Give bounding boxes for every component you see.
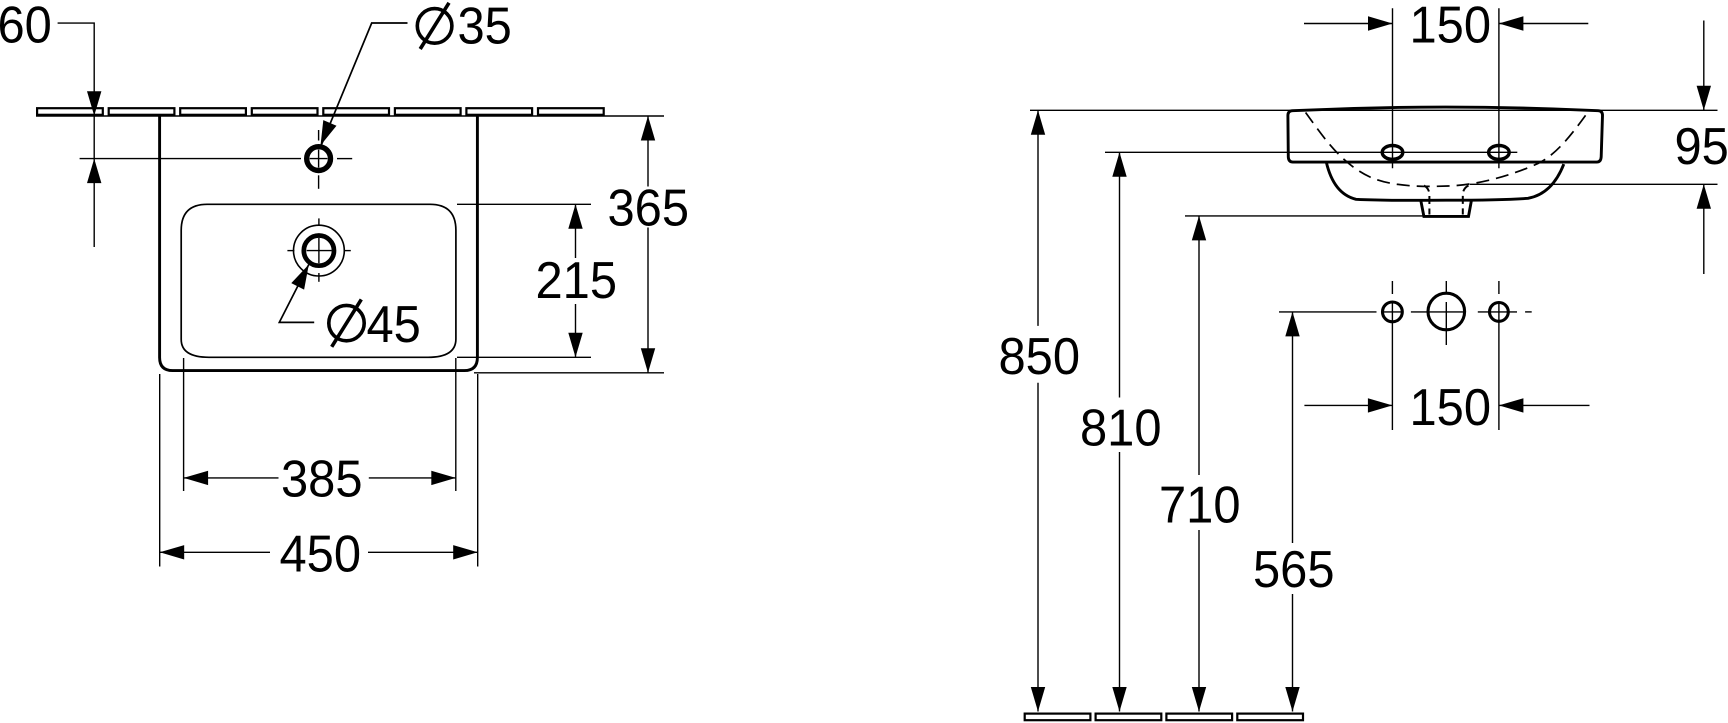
svg-text:385: 385 <box>281 449 363 508</box>
tap hole circle (D35) <box>307 147 331 171</box>
dimension 385 arrow left <box>184 471 209 485</box>
svg-text:450: 450 <box>280 524 362 583</box>
leader line D35 <box>322 23 408 145</box>
drain hole circle (D45 bold) <box>304 236 334 266</box>
svg-text:150: 150 <box>1410 378 1492 437</box>
basin outer outline (plan) <box>160 117 478 371</box>
dimension 215 extension bottom <box>457 356 591 358</box>
dimension 810 arrow down <box>1112 687 1126 712</box>
wall tiles (top view) <box>37 108 604 115</box>
dimension 710 extension <box>1185 215 1424 217</box>
dimension 385 arrow right <box>431 471 456 485</box>
dimension 710 line <box>1198 216 1200 475</box>
dimension 385 line <box>184 477 279 479</box>
dimension 850 arrow up <box>1031 110 1045 135</box>
wall line (front view) <box>1030 109 1718 111</box>
dimension 365 arrow up <box>641 116 655 141</box>
dimension 365 arrow down <box>641 348 655 373</box>
svg-text:35: 35 <box>458 0 512 55</box>
hole small left (front) <box>1383 302 1403 322</box>
floor tiles (front view) <box>1025 714 1303 721</box>
svg-text:215: 215 <box>536 251 618 310</box>
leader arrow D35 <box>321 120 337 145</box>
hole group centerline vertical right <box>1498 281 1500 294</box>
svg-text:45: 45 <box>367 295 421 354</box>
basin flange outline (front) <box>1288 107 1603 162</box>
dimension 450 line <box>160 551 270 553</box>
hole big middle (front) <box>1428 293 1465 330</box>
drain recess circle (thin) <box>294 225 345 276</box>
leader arrow D45 <box>291 265 309 290</box>
dimension 215 line <box>575 204 577 258</box>
tap hole centerline horizontal <box>80 158 301 160</box>
fixing hole centerline horizontal <box>1105 151 1517 153</box>
dimension 150 bottom arrow right <box>1368 398 1393 412</box>
fixing hole right (front) <box>1489 146 1510 160</box>
dimension 450 arrow left <box>160 545 185 559</box>
dimension 60 arrow down <box>87 91 101 116</box>
svg-text:365: 365 <box>608 178 690 237</box>
fixing hole centerline vertical right <box>1498 8 1500 168</box>
dimension 215 arrow down <box>568 333 582 358</box>
drain hidden pipe dashed right <box>1463 186 1469 215</box>
hole small right (front) <box>1490 303 1509 322</box>
drain centerline vertical <box>318 218 320 225</box>
dimension 385 extension right <box>455 358 457 491</box>
inner rim hidden edge (dashed) <box>1306 113 1587 187</box>
dimension 850 arrow down <box>1031 687 1045 712</box>
hole group centerline vertical middle <box>1445 281 1447 294</box>
dimension 365 line <box>647 116 649 187</box>
dimension 565 line <box>1292 312 1294 543</box>
inner bowl outline (plan) <box>181 204 456 357</box>
svg-text:565: 565 <box>1253 540 1335 599</box>
dimension 810 arrow up <box>1112 152 1126 177</box>
dimension 150 bottom line left <box>1304 404 1392 406</box>
tap hole centerline vertical <box>318 130 320 141</box>
dimension 150 bottom line right <box>1499 404 1590 406</box>
label D35 symbol <box>417 3 452 49</box>
dimension 150 top line left <box>1304 23 1393 25</box>
svg-text:710: 710 <box>1159 475 1241 534</box>
hole group centerline horizontal segments <box>1382 311 1404 313</box>
bowl underside outline (front) <box>1326 162 1564 200</box>
dimension 215 arrow up <box>568 204 582 229</box>
leader line D45 <box>279 265 314 323</box>
dimension 150 top arrow right <box>1368 16 1393 30</box>
dimension 385 extension left <box>183 358 185 491</box>
fixing hole centerline vertical left <box>1392 8 1394 168</box>
drain hidden pipe dashed left <box>1424 186 1429 215</box>
dimension 810 line <box>1119 152 1121 397</box>
dimension 150 top arrow left <box>1499 16 1524 30</box>
dimension 565 arrow up <box>1285 312 1299 337</box>
svg-text:95: 95 <box>1675 117 1728 176</box>
svg-text:60: 60 <box>0 0 52 54</box>
dimension 95 arrow down <box>1697 86 1711 111</box>
dimension 150 top line right <box>1499 23 1588 25</box>
label D45 symbol <box>329 299 364 346</box>
dimension 95 extension bottom <box>1470 183 1718 185</box>
svg-text:150: 150 <box>1410 0 1492 54</box>
dimension 450 arrow right <box>453 545 478 559</box>
dimension 95 line top <box>1703 21 1705 111</box>
dimension 365 extension line <box>474 372 664 374</box>
dimension 850 line <box>1037 110 1039 326</box>
dimension 565 extension <box>1279 311 1377 313</box>
dimension 450 extension left <box>159 374 161 567</box>
dimension 450 extension right <box>477 374 479 567</box>
wall line (top view) <box>36 115 664 117</box>
dimension 710 arrow up <box>1192 216 1206 241</box>
svg-text:810: 810 <box>1080 398 1162 457</box>
fixing hole left (front) <box>1382 146 1403 160</box>
dimension 60 arrow up <box>87 159 101 184</box>
dimension 60 leader <box>58 23 95 247</box>
drain centerline horizontal <box>287 250 294 252</box>
hole group centerline vertical left <box>1391 281 1393 294</box>
dimension 95 line bottom <box>1703 184 1705 274</box>
dimension 95 arrow up <box>1697 184 1711 209</box>
svg-text:850: 850 <box>999 327 1081 386</box>
dimension 710 arrow down <box>1192 687 1206 712</box>
drain stub outline <box>1421 200 1472 216</box>
dimension 150 bottom arrow left <box>1499 398 1524 412</box>
dimension 565 arrow down <box>1285 687 1299 712</box>
dimension 215 extension top <box>457 203 591 205</box>
